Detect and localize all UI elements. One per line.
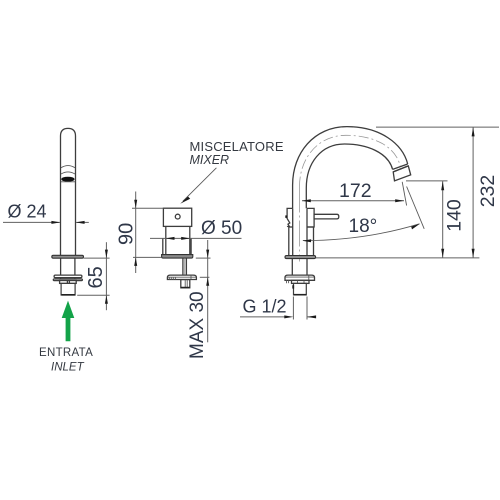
svg-text:Ø 24: Ø 24 — [8, 202, 47, 222]
svg-text:65: 65 — [85, 266, 107, 288]
mixer body outer walls — [163, 238, 191, 254]
outlet vertical extension — [402, 182, 406, 206]
svg-text:MIXER: MIXER — [190, 153, 230, 167]
MAX30 arrows — [206, 250, 209, 259]
faucet tail G1/2 — [293, 283, 306, 295]
mixer nut — [181, 280, 190, 288]
aerator tip — [393, 166, 411, 181]
mixer threaded stem — [183, 258, 187, 275]
leader arrowhead — [180, 197, 190, 204]
svg-text:INLET: INLET — [51, 362, 85, 374]
mixer head box — [163, 208, 191, 226]
outlet level extension line — [406, 180, 448, 182]
lever handle — [314, 214, 339, 219]
spout axis center line — [300, 135, 401, 261]
140 arrows — [441, 181, 444, 190]
mixer head screw hole — [175, 214, 180, 219]
18 arc arrows — [302, 239, 311, 242]
Ø50 arrows — [166, 237, 175, 240]
faucet flange — [285, 256, 316, 259]
handle left tab — [287, 208, 293, 227]
mixer washer — [167, 275, 196, 279]
mixer neck walls — [166, 226, 190, 254]
65 arrows — [105, 250, 108, 259]
G1/2 arrows — [284, 315, 293, 318]
svg-text:232: 232 — [477, 175, 499, 208]
Ø24 arrows — [51, 221, 60, 224]
faucet washer — [285, 275, 315, 280]
dimension 90 extension lines — [132, 192, 163, 274]
dimension 65 extension lines — [77, 242, 109, 310]
G 1/2 extension lines — [240, 297, 316, 320]
90 arrows — [134, 200, 137, 209]
svg-text:G 1/2: G 1/2 — [243, 297, 287, 317]
232 arrows — [472, 127, 475, 136]
mixer base plate — [162, 255, 193, 259]
svg-text:Ø 50: Ø 50 — [201, 218, 242, 239]
leader line to mixer — [183, 168, 217, 201]
dimension Ø24 lines — [3, 221, 89, 223]
svg-text:ENTRATA: ENTRATA — [39, 347, 93, 359]
svg-text:MISCELATORE: MISCELATORE — [190, 139, 284, 154]
cartridge housing — [307, 208, 314, 227]
svg-text:18°: 18° — [349, 216, 378, 237]
dimension 232 line — [472, 127, 474, 257]
pipe nut — [60, 281, 77, 284]
aerator band — [393, 164, 409, 172]
svg-text:140: 140 — [443, 199, 465, 232]
green inlet arrow — [62, 301, 75, 342]
svg-text:172: 172 — [339, 180, 372, 202]
pipe threaded tail — [61, 283, 75, 295]
dimension 172 line — [302, 200, 404, 202]
dimension 140 line — [442, 181, 444, 258]
svg-text:90: 90 — [115, 223, 137, 245]
spout top extension line — [376, 126, 499, 128]
faucet body column — [289, 208, 314, 255]
spout inner contour — [306, 144, 392, 208]
18 degree arc — [303, 224, 420, 241]
bottom shared extension line — [316, 257, 479, 259]
faucet shank tube — [292, 259, 307, 276]
pipe washer 2 — [53, 279, 82, 281]
172 arrows — [302, 199, 311, 202]
pipe flange — [52, 255, 84, 258]
faucet serrated ring — [287, 280, 310, 283]
pipe washer — [54, 275, 82, 278]
pipe below flange — [61, 258, 75, 280]
pipe tube body — [61, 128, 76, 255]
dimension Ø50 line — [150, 237, 242, 239]
svg-text:MAX 30: MAX 30 — [187, 291, 208, 359]
spout outer contour — [293, 127, 408, 209]
pipe dark seal band — [61, 177, 74, 182]
18 degree ray — [407, 187, 425, 229]
dimension MAX30 extension + line — [196, 240, 211, 342]
